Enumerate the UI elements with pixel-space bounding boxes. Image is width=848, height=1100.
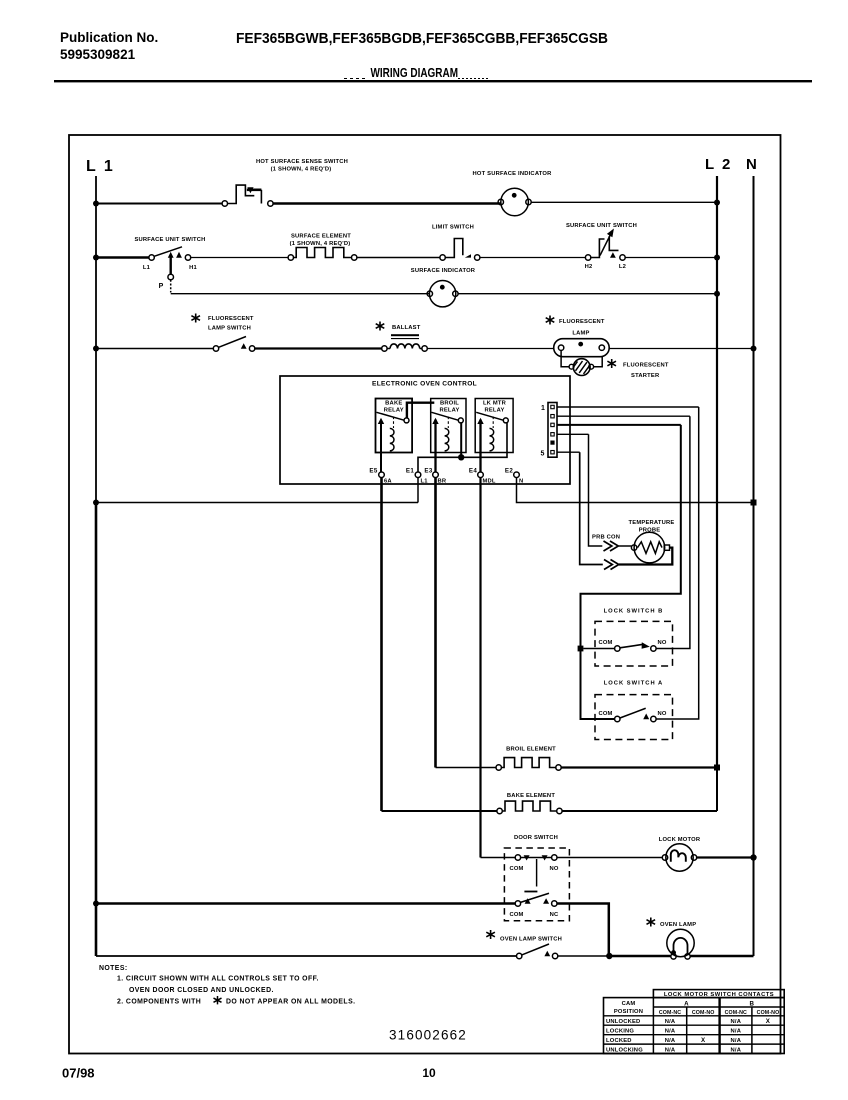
svg-text:X: X <box>701 1037 706 1044</box>
svg-text:COM-NC: COM-NC <box>725 1010 747 1016</box>
svg-text:DO NOT APPEAR ON ALL MODELS.: DO NOT APPEAR ON ALL MODELS. <box>226 999 355 1006</box>
junction L2 broil row <box>714 765 720 771</box>
svg-text:2. COMPONENTS WITH: 2. COMPONENTS WITH <box>117 999 201 1006</box>
terminal E4 <box>478 472 484 478</box>
junction broil contact <box>458 454 464 460</box>
junction oven lamp row <box>606 953 612 959</box>
wire to fluorescent lamp <box>427 348 553 350</box>
svg-text:07/98: 07/98 <box>62 1066 95 1081</box>
wire pin5 <box>557 451 580 453</box>
bake relay coil <box>390 428 394 451</box>
broil relay link <box>447 417 449 429</box>
eoc connector <box>548 403 557 458</box>
wire oven lamp to N bus <box>690 955 753 958</box>
svg-text:A: A <box>684 1001 689 1008</box>
oven lamp asterisk <box>647 918 656 927</box>
svg-text:N/A: N/A <box>665 1038 676 1044</box>
broil relay coil <box>445 428 449 451</box>
svg-text:WIRING DIAGRAM: WIRING DIAGRAM <box>371 65 459 80</box>
svg-text:LOCK MOTOR: LOCK MOTOR <box>659 837 701 843</box>
svg-text:BR: BR <box>438 479 447 485</box>
svg-text:LOCK SWITCH B: LOCK SWITCH B <box>604 609 664 615</box>
junction L1 row2 <box>93 255 99 261</box>
svg-text:N/A: N/A <box>665 1019 676 1025</box>
svg-text:316002662: 316002662 <box>389 1028 467 1043</box>
wire pin3 to lock switches <box>581 425 681 719</box>
svg-text:COM: COM <box>509 912 523 918</box>
svg-text:SURFACE UNIT SWITCH: SURFACE UNIT SWITCH <box>566 223 637 229</box>
svg-text:CAM: CAM <box>622 1001 636 1007</box>
surface unit switch left <box>149 247 191 260</box>
fluorescent starter asterisk <box>607 359 616 368</box>
bake relay contact <box>404 418 409 423</box>
header rule <box>54 80 812 82</box>
svg-text:6A: 6A <box>384 479 392 485</box>
junction N eoc row <box>751 500 757 506</box>
wire row2 left <box>96 256 149 258</box>
wire pin4 down to probe connector <box>589 434 603 546</box>
bake contact feed wire <box>407 403 434 418</box>
lock motor relay coil <box>490 428 494 451</box>
junction L1 door switch row <box>93 901 99 907</box>
svg-text:N: N <box>746 156 757 173</box>
probe connector lower chevron <box>604 560 619 570</box>
junction lock switch feed <box>578 646 584 652</box>
wire row2 right <box>625 257 717 259</box>
wire L1 bus <box>95 176 97 503</box>
svg-text:(1 SHOWN, 4 REQ'D): (1 SHOWN, 4 REQ'D) <box>290 241 351 247</box>
svg-text:E1: E1 <box>406 468 414 475</box>
broil element <box>496 758 561 771</box>
surface unit switch right <box>585 229 625 261</box>
lock motor relay contact <box>503 418 508 423</box>
door switch box <box>504 848 569 921</box>
lock motor <box>662 844 696 871</box>
svg-text:COM-NO: COM-NO <box>692 1010 715 1016</box>
svg-text:L2: L2 <box>619 264 626 270</box>
svg-text:L 2: L 2 <box>705 156 732 173</box>
junction N fluorescent row <box>751 346 757 352</box>
door switch lower pole <box>515 893 557 906</box>
lock switch A box <box>595 695 673 740</box>
terminal E5 <box>379 472 385 478</box>
svg-text:FEF365BGWB,FEF365BGDB,FEF365CG: FEF365BGWB,FEF365BGDB,FEF365CGBB,FEF365C… <box>236 30 608 47</box>
lock switch A <box>615 708 657 721</box>
wire bake row left <box>382 810 498 812</box>
wire P branch vertical <box>169 258 171 275</box>
svg-text:LIMIT SWITCH: LIMIT SWITCH <box>432 225 474 231</box>
ballast <box>382 334 428 351</box>
wire pin3 <box>557 424 681 426</box>
wire broil row right <box>561 766 717 768</box>
wire row2 to limit switch <box>357 257 440 259</box>
svg-text:FLUORESCENT: FLUORESCENT <box>208 316 254 322</box>
svg-text:UNLOCKING: UNLOCKING <box>606 1048 643 1054</box>
junction L1 row1 <box>93 201 99 207</box>
svg-text:N/A: N/A <box>731 1019 742 1025</box>
wire junction to oven lamp <box>610 955 671 958</box>
fluorescent lamp <box>554 339 610 357</box>
svg-text:LK MTR: LK MTR <box>483 401 507 407</box>
svg-text:FLUORESCENT: FLUORESCENT <box>559 319 605 325</box>
fluorescent lamp switch asterisk <box>191 314 200 323</box>
svg-text:MDL: MDL <box>483 479 496 485</box>
svg-text:LAMP SWITCH: LAMP SWITCH <box>208 326 251 332</box>
wire bake row right <box>562 810 717 812</box>
surface element <box>288 248 357 261</box>
wire E3 down <box>434 478 437 768</box>
wire E5 down <box>380 478 383 811</box>
broil contact wire down <box>460 423 462 457</box>
lock motor switch contacts table <box>604 990 785 1054</box>
broil relay box <box>431 399 466 453</box>
wire row1 left <box>96 203 222 205</box>
svg-text:N/A: N/A <box>731 1038 742 1044</box>
wire oven lamp switch to junction <box>558 955 610 957</box>
svg-text:N/A: N/A <box>731 1048 742 1054</box>
wire row1 middle <box>273 202 501 204</box>
terminal E2 <box>514 472 520 478</box>
svg-text:LOCKED: LOCKED <box>606 1038 632 1044</box>
door switch actuator link <box>536 859 538 887</box>
svg-text:RELAY: RELAY <box>384 408 404 414</box>
svg-text:UNLOCKED: UNLOCKED <box>606 1019 640 1025</box>
junction L2 row1 <box>714 200 720 206</box>
wire chevron to probe <box>619 545 632 547</box>
svg-text:NOTES:: NOTES: <box>99 965 128 972</box>
svg-text:LAMP: LAMP <box>572 331 589 337</box>
svg-text:(1 SHOWN, 4 REQ'D): (1 SHOWN, 4 REQ'D) <box>271 167 332 173</box>
lock switch B box <box>595 621 673 666</box>
svg-text:N/A: N/A <box>665 1048 676 1054</box>
svg-text:E4: E4 <box>469 468 477 475</box>
svg-text:H2: H2 <box>585 264 593 270</box>
svg-text:LOCK SWITCH A: LOCK SWITCH A <box>604 681 663 687</box>
bake relay box <box>376 399 413 453</box>
svg-text:RELAY: RELAY <box>484 408 504 414</box>
svg-text:NO: NO <box>657 640 666 646</box>
svg-text:SURFACE INDICATOR: SURFACE INDICATOR <box>411 268 476 274</box>
terminal E3 <box>433 472 439 478</box>
svg-text:1: 1 <box>541 405 545 412</box>
svg-text:L1: L1 <box>143 265 151 271</box>
wire E4 down <box>479 478 481 858</box>
wire lock switch B no up pin2 <box>656 416 690 648</box>
wire oven lamp row left <box>96 955 517 957</box>
wire fluorescent row right <box>609 348 753 350</box>
wire L1 bus lower <box>95 503 98 957</box>
svg-text:COM: COM <box>509 866 523 872</box>
broil relay contact <box>458 418 463 423</box>
bake relay link <box>393 417 395 429</box>
hot surface sense switch <box>222 185 273 206</box>
svg-text:L 1: L 1 <box>86 158 115 175</box>
junction N lock motor row <box>750 854 756 860</box>
svg-text:H1: H1 <box>189 265 197 271</box>
lock switch B <box>615 642 657 651</box>
door switch upper pole <box>515 855 557 861</box>
svg-text:TEMPERATURE: TEMPERATURE <box>629 520 675 526</box>
wire broil row left <box>436 767 497 769</box>
terminal E1 <box>415 472 421 478</box>
bake relay blade <box>377 412 405 420</box>
junction L1 fluorescent row <box>93 346 99 352</box>
wire row1 right <box>531 201 717 203</box>
wire door switch no to lock motor <box>557 857 662 859</box>
svg-text:E3: E3 <box>424 468 432 475</box>
wire lock switch A no up pin1 <box>656 407 699 719</box>
wire N bus <box>753 176 755 956</box>
wire to ballast <box>255 347 382 349</box>
svg-text:POSITION: POSITION <box>614 1009 643 1015</box>
wire pin4 <box>557 433 589 435</box>
svg-text:5: 5 <box>541 451 545 458</box>
lock motor relay blade <box>476 412 503 420</box>
oven lamp switch <box>517 944 558 959</box>
wire mdl to door switch com <box>481 857 516 859</box>
bake element <box>497 801 562 814</box>
ballast asterisk <box>376 322 385 331</box>
svg-text:NC: NC <box>550 912 559 918</box>
svg-text:STARTER: STARTER <box>631 373 660 379</box>
broil relay armature <box>434 420 436 473</box>
oven lamp <box>667 929 694 959</box>
wire lock motor to N <box>697 856 754 858</box>
svg-text:BAKE: BAKE <box>385 401 402 407</box>
svg-text:BAKE ELEMENT: BAKE ELEMENT <box>507 793 555 799</box>
wire door switch row left <box>96 902 515 905</box>
wire E2 to N bus <box>517 478 754 503</box>
wire pin1 <box>557 406 699 408</box>
svg-text:N/A: N/A <box>665 1029 676 1035</box>
wire P branch down <box>170 280 172 293</box>
wire probe right loop <box>619 548 672 565</box>
fluorescent lamp asterisk <box>546 316 555 325</box>
svg-text:LOCKING: LOCKING <box>606 1029 634 1035</box>
svg-text:N: N <box>519 479 523 485</box>
surface indicator <box>427 281 458 307</box>
svg-text:B: B <box>750 1001 755 1008</box>
wire to lock switch B com <box>583 648 614 650</box>
svg-text:RELAY: RELAY <box>439 408 459 414</box>
probe connector upper chevron <box>604 541 619 551</box>
wire pin5 down to probe connector <box>580 452 603 564</box>
svg-text:COM-NO: COM-NO <box>757 1010 780 1016</box>
junction L2 indicator row <box>714 291 720 297</box>
wire pin2 <box>557 415 690 417</box>
svg-text:DOOR SWITCH: DOOR SWITCH <box>514 835 558 841</box>
wire L2 bus lower <box>716 768 718 812</box>
svg-text:COM-NC: COM-NC <box>659 1010 681 1016</box>
svg-text:OVEN LAMP SWITCH: OVEN LAMP SWITCH <box>500 937 562 943</box>
svg-text:L1: L1 <box>421 479 429 485</box>
svg-text:5995309821: 5995309821 <box>60 47 136 62</box>
svg-text:PRB CON: PRB CON <box>592 535 620 541</box>
svg-text:10: 10 <box>422 1066 436 1080</box>
oven lamp switch asterisk <box>486 930 495 939</box>
svg-text:SURFACE ELEMENT: SURFACE ELEMENT <box>291 234 351 240</box>
temperature probe <box>631 532 669 563</box>
wire row2 to right switch <box>480 257 586 259</box>
junction L1 eoc row <box>93 500 99 506</box>
svg-text:HOT SURFACE INDICATOR: HOT SURFACE INDICATOR <box>472 171 552 177</box>
wire row2 to element <box>191 257 288 259</box>
lock motor relay box <box>475 399 513 453</box>
bake relay armature <box>380 420 382 473</box>
svg-text:NO: NO <box>657 711 666 717</box>
wire door switch nc down <box>557 904 609 957</box>
svg-text:HOT SURFACE SENSE SWITCH: HOT SURFACE SENSE SWITCH <box>256 159 348 165</box>
junction L2 row2 <box>714 255 720 261</box>
terminal P <box>168 274 174 280</box>
svg-text:COM: COM <box>598 711 612 717</box>
broil relay blade <box>432 412 459 420</box>
title leader dots <box>458 78 490 80</box>
hot surface indicator <box>498 188 531 216</box>
svg-text:X: X <box>766 1018 771 1025</box>
fluorescent starter <box>561 350 602 375</box>
svg-text:1. CIRCUIT SHOWN WITH ALL CON: 1. CIRCUIT SHOWN WITH ALL CONTROLS SET T… <box>117 976 319 983</box>
svg-text:N/A: N/A <box>731 1029 742 1035</box>
svg-text:BROIL: BROIL <box>440 401 459 407</box>
wire L2 bus <box>716 176 718 768</box>
svg-text:P: P <box>159 283 164 290</box>
wire eoc row left <box>96 478 418 503</box>
svg-text:FLUORESCENT: FLUORESCENT <box>623 363 669 369</box>
electronic oven control box <box>280 376 570 484</box>
lock motor relay link <box>492 417 494 429</box>
svg-text:E2: E2 <box>505 468 513 475</box>
svg-text:COM: COM <box>598 640 612 646</box>
svg-text:BALLAST: BALLAST <box>392 325 421 331</box>
svg-text:BROIL ELEMENT: BROIL ELEMENT <box>506 747 556 753</box>
lock motor relay armature <box>479 420 481 473</box>
svg-text:OVEN LAMP: OVEN LAMP <box>660 922 696 928</box>
limit switch <box>440 239 480 261</box>
svg-text:E5: E5 <box>369 468 377 475</box>
svg-text:ELECTRONIC OVEN CONTROL: ELECTRONIC OVEN CONTROL <box>372 381 477 388</box>
wire fluorescent row left <box>96 348 213 350</box>
svg-text:OVEN DOOR CLOSED AND UNLOCKED.: OVEN DOOR CLOSED AND UNLOCKED. <box>129 987 274 994</box>
fluorescent lamp switch <box>213 337 255 352</box>
relay common feed wire <box>418 423 507 472</box>
wire indicator row right <box>458 293 717 295</box>
svg-text:Publication No.: Publication No. <box>60 30 158 45</box>
svg-text:SURFACE UNIT SWITCH: SURFACE UNIT SWITCH <box>134 237 205 243</box>
svg-text:NO: NO <box>549 866 558 872</box>
